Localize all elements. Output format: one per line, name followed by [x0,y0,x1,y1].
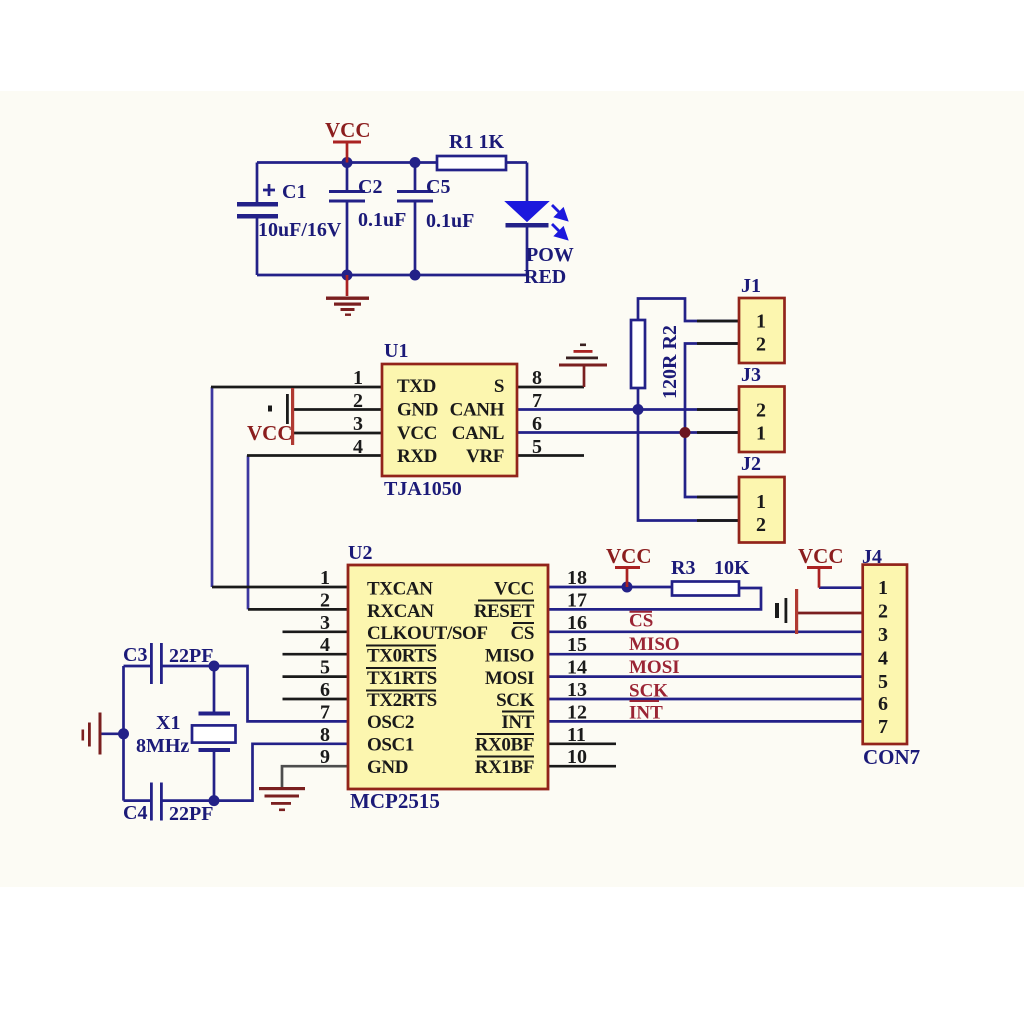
svg-text:R3: R3 [671,557,695,579]
svg-text:2: 2 [878,601,888,623]
svg-text:3: 3 [878,624,888,646]
svg-text:TX1RTS: TX1RTS [367,668,437,689]
svg-text:CLKOUT/SOF: CLKOUT/SOF [367,623,488,644]
svg-text:5: 5 [532,436,542,458]
svg-text:X1: X1 [156,712,180,734]
svg-text:C4: C4 [123,802,147,824]
svg-text:J4: J4 [862,546,882,568]
svg-text:VCC: VCC [606,544,652,568]
svg-text:3: 3 [353,413,363,435]
svg-text:U2: U2 [348,542,372,564]
svg-text:VCC: VCC [325,118,371,142]
svg-text:12: 12 [567,701,587,723]
svg-text:6: 6 [532,413,542,435]
svg-text:TXCAN: TXCAN [367,579,433,600]
svg-text:10: 10 [567,746,587,768]
svg-text:5: 5 [320,657,330,679]
svg-text:C2: C2 [358,176,382,198]
svg-text:22PF: 22PF [169,803,213,825]
svg-text:15: 15 [567,634,587,656]
svg-text:C1: C1 [282,181,306,203]
svg-text:U1: U1 [384,340,408,362]
svg-text:10K: 10K [714,557,750,579]
svg-text:TJA1050: TJA1050 [384,478,462,500]
svg-text:RESET: RESET [474,601,535,622]
svg-text:C5: C5 [426,176,450,198]
svg-text:MISO: MISO [629,634,680,655]
svg-text:OSC1: OSC1 [367,735,414,756]
svg-text:MOSI: MOSI [485,668,534,689]
svg-text:SCK: SCK [629,681,668,702]
svg-text:9: 9 [320,746,330,768]
svg-text:J3: J3 [741,364,761,386]
svg-text:CS: CS [511,623,535,644]
svg-text:OSC2: OSC2 [367,712,414,733]
svg-text:2: 2 [320,589,330,611]
svg-text:C3: C3 [123,644,147,666]
svg-text:6: 6 [320,679,330,701]
svg-text:14: 14 [567,657,587,679]
svg-text:1: 1 [756,491,766,513]
svg-text:4: 4 [353,436,363,458]
svg-text:18: 18 [567,567,587,589]
svg-text:1: 1 [756,311,766,333]
svg-text:SCK: SCK [496,690,534,711]
svg-text:TX0RTS: TX0RTS [367,646,437,667]
svg-text:7: 7 [878,716,888,738]
svg-text:RED: RED [524,266,566,288]
svg-text:RX1BF: RX1BF [475,757,534,778]
svg-text:10uF/16V: 10uF/16V [258,219,342,241]
svg-text:11: 11 [567,724,586,746]
svg-text:VCC: VCC [798,544,844,568]
svg-text:1: 1 [320,567,330,589]
svg-text:1: 1 [878,577,888,599]
svg-text:4: 4 [320,634,330,656]
svg-text:0.1uF: 0.1uF [426,210,474,232]
svg-text:INT: INT [629,703,663,724]
svg-text:J2: J2 [741,453,761,475]
svg-text:7: 7 [532,390,542,412]
svg-text:17: 17 [567,589,587,611]
svg-text:2: 2 [756,334,766,356]
svg-text:MISO: MISO [485,646,534,667]
svg-text:13: 13 [567,679,587,701]
svg-text:MOSI: MOSI [629,657,680,678]
svg-text:POW: POW [526,244,574,266]
svg-text:R1 1K: R1 1K [449,131,504,153]
svg-text:8: 8 [532,367,542,389]
svg-text:CON7: CON7 [863,745,920,769]
svg-text:RXCAN: RXCAN [367,601,434,622]
svg-text:GND: GND [367,757,408,778]
svg-text:VCC: VCC [494,579,534,600]
svg-text:CS: CS [629,611,653,632]
svg-text:TX2RTS: TX2RTS [367,690,437,711]
svg-text:6: 6 [878,693,888,715]
svg-text:16: 16 [567,612,587,634]
svg-text:2: 2 [756,400,766,422]
svg-text:J1: J1 [741,275,761,297]
svg-text:CANL: CANL [452,423,504,444]
svg-text:TXD: TXD [397,376,436,397]
svg-text:7: 7 [320,701,330,723]
svg-text:1: 1 [353,367,363,389]
svg-text:22PF: 22PF [169,645,213,667]
svg-text:RXD: RXD [397,446,437,467]
svg-text:GND: GND [397,400,438,421]
svg-text:0.1uF: 0.1uF [358,209,406,231]
svg-text:2: 2 [353,390,363,412]
svg-text:8: 8 [320,724,330,746]
svg-text:MCP2515: MCP2515 [350,789,440,813]
svg-text:RX0BF: RX0BF [475,735,534,756]
svg-text:5: 5 [878,671,888,693]
svg-text:VCC: VCC [247,421,293,445]
svg-text:8MHz: 8MHz [136,735,189,757]
svg-text:CANH: CANH [450,400,505,421]
svg-text:S: S [494,376,504,397]
svg-text:INT: INT [501,712,534,733]
svg-text:4: 4 [878,648,888,670]
svg-text:3: 3 [320,612,330,634]
svg-text:2: 2 [756,514,766,536]
svg-text:120R R2: 120R R2 [659,325,681,399]
svg-text:VRF: VRF [466,446,504,467]
svg-text:1: 1 [756,423,766,445]
svg-text:VCC: VCC [397,423,437,444]
